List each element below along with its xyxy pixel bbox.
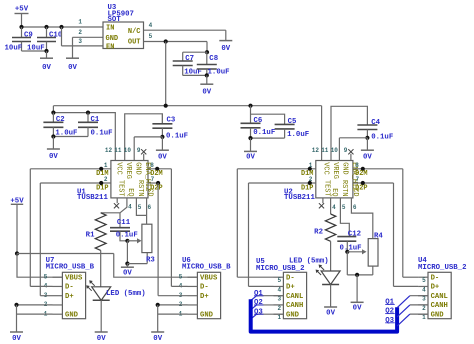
- capacitor C8: [206, 52, 208, 64]
- capacitor C3: [161, 114, 163, 124]
- ground LED right: [324, 306, 337, 308]
- ground LED left: [95, 331, 108, 333]
- svg-text:MICRO_USB_B: MICRO_USB_B: [46, 264, 95, 272]
- svg-text:OUT: OUT: [128, 39, 141, 47]
- stub pin 3 U2: [322, 198, 324, 203]
- wire Q2 to U5 CANH: [257, 304, 284, 306]
- svg-text:GND: GND: [286, 311, 300, 319]
- junction U6 gnd net: [156, 303, 160, 307]
- junction C12/R4 wiper: [345, 250, 349, 254]
- svg-text:D1P: D1P: [301, 184, 313, 192]
- svg-text:0V: 0V: [123, 269, 132, 277]
- svg-text:3: 3: [78, 38, 82, 45]
- junction C2: [51, 111, 55, 115]
- svg-text:C3: C3: [167, 117, 176, 125]
- svg-text:R1: R1: [86, 231, 95, 239]
- wire pin5 to C12: [340, 198, 349, 237]
- svg-text:1: 1: [422, 314, 426, 321]
- capacitor C7: [182, 52, 184, 61]
- capacitor C1: [87, 113, 89, 123]
- svg-text:C12: C12: [348, 230, 361, 238]
- wire U2 pin8 D2M: [353, 168, 403, 170]
- resistor R1: [95, 213, 106, 251]
- wire U3 GND pin: [73, 36, 104, 38]
- svg-text:R2: R2: [314, 228, 323, 236]
- svg-text:9: 9: [137, 147, 141, 154]
- wire to C7/C8: [206, 42, 208, 53]
- wire U7 pin2: [17, 304, 53, 306]
- svg-text:EQ: EQ: [330, 188, 338, 196]
- svg-text:0V: 0V: [202, 89, 211, 97]
- wire to C5: [251, 114, 285, 124]
- svg-text:CANL: CANL: [431, 293, 448, 301]
- ground C2/C1: [47, 148, 60, 150]
- wire LED cathode to ground: [100, 300, 102, 332]
- svg-text:5: 5: [179, 273, 183, 280]
- svg-text:12: 12: [312, 147, 320, 154]
- wire to U3 EN: [62, 45, 104, 47]
- bus entry Q1 (U4): [397, 296, 410, 308]
- junction pin8: [155, 167, 159, 171]
- svg-text:R4: R4: [374, 232, 383, 240]
- stub pin 9: [143, 154, 145, 161]
- svg-text:10: 10: [124, 147, 132, 154]
- wire D2P down to U6 D+: [157, 183, 159, 296]
- wire N/C to gnd: [144, 29, 226, 31]
- wire U2 pin2 D1P: [249, 182, 316, 184]
- svg-text:0V: 0V: [153, 335, 162, 343]
- ground C3: [156, 149, 169, 151]
- svg-text:D-: D-: [65, 284, 74, 292]
- svg-text:+5V: +5V: [15, 5, 29, 13]
- svg-text:1: 1: [78, 19, 82, 26]
- svg-text:4: 4: [128, 204, 132, 211]
- LED D? (left): [92, 287, 111, 301]
- junction C3/gnd line: [160, 135, 164, 139]
- svg-text:VBUS: VBUS: [65, 274, 83, 282]
- svg-text:1.0uF: 1.0uF: [208, 69, 230, 77]
- junction rail/OUT: [164, 104, 168, 108]
- junction: [361, 167, 365, 171]
- svg-text:C1: C1: [91, 116, 100, 124]
- svg-text:GND: GND: [106, 35, 119, 43]
- wire C2/C1 bottoms: [53, 136, 88, 138]
- wire U2 pin1 D1M: [237, 168, 315, 170]
- connector U5 MICRO_USB_2: [283, 272, 306, 318]
- svg-text:GND: GND: [340, 162, 348, 174]
- ground C7/C8: [200, 83, 213, 85]
- svg-text:D-: D-: [286, 274, 295, 282]
- svg-text:4: 4: [332, 204, 336, 211]
- wire rail to U2 VCC: [321, 106, 323, 161]
- wire U2 D1M down to U5 D-: [236, 169, 238, 277]
- junction U7 gnd net: [14, 303, 18, 307]
- svg-text:CD: CD: [146, 188, 154, 196]
- svg-text:TEST: TEST: [322, 180, 330, 197]
- capacitor C11: [119, 213, 121, 228]
- svg-text:IN: IN: [106, 24, 114, 32]
- connector U7 MICRO_USB_B: [62, 272, 85, 318]
- svg-text:0.1uF: 0.1uF: [253, 129, 275, 137]
- junction pin7: [156, 181, 160, 185]
- junction C1: [86, 111, 90, 115]
- wire GND to ground: [72, 37, 74, 58]
- junction OUT feed: [164, 39, 168, 43]
- svg-text:R3: R3: [146, 256, 155, 264]
- LED (right): [321, 271, 340, 285]
- svg-text:VCC: VCC: [115, 162, 123, 174]
- svg-text:C11: C11: [117, 219, 131, 227]
- CAN bus (thick blue): [251, 299, 397, 331]
- stub pin 9 U2: [350, 154, 352, 161]
- svg-text:Q1: Q1: [385, 299, 394, 307]
- junction +5V/C9: [19, 25, 23, 29]
- ground U3 GND: [66, 57, 79, 59]
- svg-text:11: 11: [114, 147, 122, 154]
- svg-text:0V: 0V: [158, 154, 167, 162]
- connector U4 MICRO_USB_2: [428, 272, 451, 318]
- no-connect X pin 9 U2: [348, 149, 353, 154]
- svg-text:0V: 0V: [49, 153, 58, 161]
- svg-text:10uF: 10uF: [5, 44, 23, 52]
- ground N/C: [219, 40, 232, 42]
- wire U1 pin8 D2M: [148, 168, 171, 170]
- wire rail to C6: [250, 106, 252, 124]
- svg-text:0V: 0V: [97, 335, 106, 343]
- capacitor C5: [275, 123, 295, 125]
- wire down to U2 GND pin: [338, 138, 340, 161]
- junction cap gnd: [44, 49, 48, 53]
- svg-text:TUSB211: TUSB211: [77, 194, 108, 202]
- svg-text:VCC: VCC: [322, 162, 330, 174]
- svg-text:N/C: N/C: [128, 28, 141, 36]
- svg-text:1: 1: [104, 162, 108, 169]
- wire rail to U1 VCC with C2/C1 taps: [53, 106, 115, 161]
- wire Q1 to U4 CANL: [410, 295, 428, 297]
- svg-text:D2M: D2M: [355, 170, 367, 178]
- svg-text:5: 5: [422, 277, 426, 284]
- junction R3 bottom: [125, 262, 129, 266]
- svg-text:VREG: VREG: [124, 162, 132, 179]
- svg-text:3: 3: [422, 296, 426, 303]
- junction pin1: [99, 167, 103, 171]
- svg-text:4: 4: [422, 286, 426, 293]
- svg-text:1: 1: [277, 314, 281, 321]
- svg-text:0.1uF: 0.1uF: [116, 232, 138, 240]
- svg-text:12: 12: [105, 147, 113, 154]
- wire U7 pin1 GND: [17, 313, 53, 315]
- svg-text:D2M: D2M: [150, 170, 162, 178]
- bus entry Q3: [251, 314, 257, 319]
- svg-text:11: 11: [321, 147, 329, 154]
- capacitor C12: [337, 236, 356, 238]
- ground C6/C5: [244, 150, 257, 152]
- junction C4/gnd line: [365, 136, 369, 140]
- junction: [308, 181, 312, 185]
- svg-text:2: 2: [277, 305, 281, 312]
- ground C9/C10: [40, 57, 53, 59]
- wire U2 D1P down to U5 D+: [248, 183, 250, 286]
- ground U6: [151, 331, 164, 333]
- svg-text:Q3: Q3: [385, 317, 394, 325]
- svg-text:TUSB211: TUSB211: [284, 194, 315, 202]
- svg-text:0V: 0V: [12, 335, 21, 343]
- svg-text:6: 6: [148, 204, 152, 211]
- wire R4/C12 bottoms: [347, 274, 373, 276]
- svg-text:TEST: TEST: [117, 180, 125, 197]
- svg-text:2: 2: [78, 29, 82, 36]
- svg-text:8: 8: [355, 162, 359, 169]
- svg-text:EQ: EQ: [126, 188, 134, 196]
- wire C7/C8 bottoms: [183, 74, 207, 76]
- svg-text:0V: 0V: [42, 64, 51, 72]
- svg-text:D+: D+: [286, 284, 295, 292]
- wire EN tie to +5V: [61, 27, 63, 46]
- svg-text:5: 5: [138, 204, 142, 211]
- wire to gnd net: [346, 252, 348, 275]
- wire C6/C5 bottoms: [251, 137, 285, 139]
- svg-text:C10: C10: [49, 31, 62, 39]
- bus entry Q2: [251, 305, 257, 310]
- svg-text:C4: C4: [371, 119, 380, 127]
- svg-text:RSTN: RSTN: [136, 180, 144, 197]
- wire U2 VREG over to C4: [331, 106, 367, 160]
- svg-text:C7: C7: [185, 55, 194, 63]
- svg-text:MICRO_USB_2: MICRO_USB_2: [418, 264, 466, 272]
- bus entry Q1: [251, 296, 257, 301]
- no-connect X pin 9 U1: [141, 149, 146, 154]
- svg-text:D1M: D1M: [301, 170, 313, 178]
- wire D1P down to U7 D+: [39, 183, 41, 296]
- regulator U3 LP5907: [103, 22, 144, 49]
- svg-text:EN: EN: [106, 43, 114, 51]
- resistor R3 (rect): [142, 224, 152, 252]
- wire pin4 to R2: [330, 198, 332, 214]
- wire U2 pin7 D2P: [353, 182, 394, 184]
- bus entry Q2 (U4): [397, 305, 410, 317]
- IC U1 TUSB211: [111, 161, 148, 198]
- junction C10: [44, 25, 48, 29]
- svg-text:9: 9: [344, 147, 348, 154]
- svg-text:0V: 0V: [353, 304, 362, 312]
- wire U6 pin1 GND: [158, 313, 188, 315]
- svg-text:GND: GND: [200, 311, 214, 319]
- svg-text:1: 1: [309, 162, 313, 169]
- svg-text:CANH: CANH: [286, 302, 303, 310]
- svg-text:D+: D+: [431, 284, 440, 292]
- svg-text:0.1uF: 0.1uF: [371, 133, 393, 141]
- svg-text:MICRO_USB_2: MICRO_USB_2: [256, 265, 304, 273]
- junction: [308, 167, 312, 171]
- svg-text:GND: GND: [431, 311, 445, 319]
- wire D1M down to U7 D-: [29, 169, 31, 287]
- wire C7 top tie: [183, 51, 207, 53]
- junction +5V line: [15, 251, 19, 255]
- junction rail/C6: [248, 104, 252, 108]
- svg-text:5: 5: [44, 273, 48, 280]
- wire pin6 to R3 top: [146, 198, 148, 224]
- wire to ground: [206, 75, 208, 84]
- svg-text:GND: GND: [65, 311, 79, 319]
- wire R1 to LED anode: [100, 250, 102, 286]
- svg-text:5: 5: [277, 277, 281, 284]
- svg-text:0V: 0V: [68, 64, 77, 72]
- svg-text:D1P: D1P: [96, 184, 108, 192]
- capacitor C10: [46, 27, 48, 38]
- wire D2M down to U6 D-: [170, 169, 172, 287]
- wire pin5 tie: [136, 198, 146, 216]
- wire OUT down to rail: [165, 42, 167, 106]
- capacitor C6: [241, 122, 261, 124]
- svg-text:0V: 0V: [246, 153, 255, 161]
- svg-text:CANH: CANH: [431, 302, 448, 310]
- svg-text:C2: C2: [56, 116, 65, 124]
- wire U2 GND pin line: [339, 137, 367, 139]
- wire Q2 to U4 CANH: [410, 304, 428, 306]
- stub pin 3: [116, 198, 118, 203]
- R3 wiper arrow: [127, 240, 140, 242]
- svg-text:C8: C8: [209, 55, 218, 63]
- wire U1 pin1 D1M: [30, 168, 111, 170]
- wire to ground: [46, 51, 48, 58]
- svg-text:3: 3: [277, 296, 281, 303]
- wire C9/C10 bottoms join: [22, 50, 47, 52]
- svg-text:2: 2: [422, 305, 426, 312]
- svg-text:0.1uF: 0.1uF: [166, 132, 188, 140]
- ground U7: [10, 331, 23, 333]
- svg-text:VBUS: VBUS: [200, 274, 218, 282]
- svg-text:1.0uF: 1.0uF: [287, 131, 309, 139]
- connector U6 MICRO_USB_B: [197, 272, 220, 318]
- capacitor C9: [21, 27, 23, 38]
- wire U2 D2M down to U4 D-: [402, 169, 404, 277]
- no-connect X pin 3 U2: [319, 203, 324, 208]
- junction EN branch: [59, 25, 63, 29]
- ground C4: [361, 149, 374, 151]
- wire R2 to LED anode: [330, 241, 332, 271]
- junction C11/R3 wiper: [125, 239, 129, 243]
- svg-text:0V: 0V: [363, 154, 372, 162]
- ground C12/R4: [351, 301, 364, 303]
- wire +5V to U6 VBUS: [114, 254, 198, 278]
- resistor R4 (rect): [368, 239, 378, 267]
- svg-text:0V: 0V: [326, 309, 335, 317]
- svg-text:VREG: VREG: [331, 162, 339, 179]
- svg-text:4: 4: [277, 286, 281, 293]
- svg-text:D1M: D1M: [96, 170, 108, 178]
- wire U2 D2P down to U4 D+: [393, 183, 395, 286]
- svg-text:GND: GND: [134, 162, 142, 174]
- svg-text:0V: 0V: [221, 45, 230, 53]
- wire main rail: [53, 105, 321, 107]
- wire U6 pin2: [158, 304, 188, 306]
- IC U2 TUSB211: [316, 161, 353, 198]
- svg-text:6: 6: [353, 204, 357, 211]
- svg-text:CANL: CANL: [286, 293, 303, 301]
- wire Q3 to U4 GND: [410, 313, 428, 315]
- wire to ground: [126, 241, 128, 264]
- wire pin4 to R1: [101, 198, 127, 213]
- wire +5V down to U7 VBUS: [17, 254, 62, 278]
- svg-text:D-: D-: [431, 274, 440, 282]
- svg-text:10: 10: [331, 147, 339, 154]
- svg-text:LED (5mm): LED (5mm): [106, 290, 146, 298]
- svg-text:MICRO_USB_B: MICRO_USB_B: [182, 264, 231, 272]
- junction gnd tap: [355, 273, 359, 277]
- R4 wiper arrow: [347, 251, 365, 253]
- resistor R2: [325, 214, 335, 241]
- svg-text:D+: D+: [200, 293, 209, 301]
- junction pin2: [99, 181, 103, 185]
- wire to ground: [16, 305, 18, 332]
- wire +5V to IN rail: [21, 14, 23, 28]
- wire +5V distribution: [17, 253, 114, 255]
- svg-text:RSTN: RSTN: [340, 180, 348, 197]
- svg-text:CD: CD: [351, 188, 359, 196]
- wire U1 VREG to C3: [125, 114, 163, 161]
- wire Q1 to U5 CANL: [257, 295, 284, 297]
- no-connect X pin 3 U1: [114, 203, 119, 208]
- wire U1 pin2 D1P: [40, 182, 111, 184]
- svg-text:8: 8: [150, 162, 154, 169]
- wire Q3 to U5 GND: [257, 313, 284, 315]
- junction: [361, 181, 365, 185]
- wire +5V horizontal to U3 IN: [22, 26, 104, 28]
- svg-text:SOT: SOT: [108, 16, 122, 24]
- wire U1 GND pin line: [134, 136, 162, 138]
- wire down to U1 GND pin: [133, 137, 135, 161]
- svg-text:5: 5: [342, 204, 346, 211]
- svg-text:4: 4: [149, 22, 153, 29]
- capacitor C4: [357, 124, 377, 126]
- ground C11/R3: [121, 266, 134, 268]
- capacitor C2: [52, 113, 54, 123]
- svg-text:Q2: Q2: [385, 308, 394, 316]
- wire R3 bottom tie: [127, 263, 147, 265]
- bus entry Q3 (U4): [397, 314, 410, 326]
- svg-text:D-: D-: [200, 284, 209, 292]
- svg-text:0.1uF: 0.1uF: [91, 130, 113, 138]
- svg-text:C9: C9: [24, 31, 33, 39]
- svg-text:C5: C5: [288, 118, 297, 126]
- svg-text:5: 5: [149, 33, 153, 40]
- svg-text:C6: C6: [254, 117, 263, 125]
- wire pin6 to R4 top: [351, 198, 372, 239]
- wire LED cathode to gnd: [330, 285, 332, 308]
- svg-text:D+: D+: [65, 293, 74, 301]
- wire OUT: [144, 41, 208, 43]
- wire U1 pin7 D2P: [148, 182, 158, 184]
